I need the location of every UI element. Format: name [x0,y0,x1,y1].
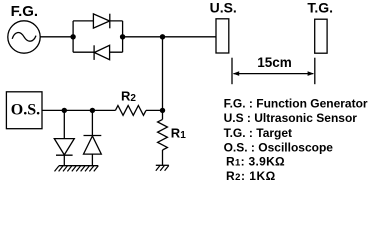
diode D3 (clamp, pointing down) [54,139,74,156]
svg-text:R1: 3.9KΩ: R1: 3.9KΩ [226,155,285,169]
target T.G. box [315,19,327,53]
svg-text:U.S.: U.S. [210,0,237,16]
ultrasonic sensor U.S. box [216,19,229,53]
svg-text:R2: 1KΩ: R2: 1KΩ [226,169,276,183]
ground (R1) [156,165,169,171]
node R2/R1 junction [160,108,165,113]
wire bottom branch [73,51,123,53]
wire node to R1 [162,110,164,119]
node right junction [120,34,125,39]
resistor R1 (vertical zigzag) [158,119,168,150]
extension line below T.G. [314,58,316,84]
node junction to R network [160,34,165,39]
legend text [224,96,368,183]
AC source (function generator) circle [8,21,40,53]
svg-text:F.G. : Function Generator: F.G. : Function Generator [224,96,368,110]
wire right branch vertical [122,21,124,52]
wire left branch vertical [72,21,74,52]
diode D2 (bottom, pointing left) [94,45,110,60]
wire FG to diode pair [40,36,73,38]
svg-text:T.G. : Target: T.G. : Target [224,126,292,140]
wire R1 to ground [162,150,164,165]
svg-text:F.G.: F.G. [11,3,39,20]
node left junction [70,34,75,39]
dimension arrow 15cm [233,71,314,76]
svg-text:U.S : Ultrasonic Sensor: U.S : Ultrasonic Sensor [224,111,358,125]
wire diode pair to sensor [123,36,216,38]
diode D4 (clamp, pointing up) [84,136,102,155]
wire down to diode D4 [91,110,93,135]
wire D4 to ground [91,154,93,166]
wire down to diode D3 [63,110,65,138]
svg-text:T.G.: T.G. [307,0,333,16]
resistor R2 (horizontal zigzag) [115,106,146,116]
node clamp right [90,108,95,113]
wire top branch [73,20,123,22]
sine wave inside source [12,33,36,42]
wire junction down to R2/R1 node [162,37,164,111]
wire O.S. to R2 [42,109,115,111]
svg-text:O.S.: O.S. [11,101,40,118]
svg-text:O.S. : Oscilloscope: O.S. : Oscilloscope [224,141,334,155]
svg-text:R2: R2 [121,88,136,104]
oscilloscope O.S. box [6,92,42,129]
extension line below U.S. [231,58,233,84]
svg-text:R1: R1 [171,125,186,141]
wire R2 to node [146,109,163,111]
ground (clamp diodes) [55,166,99,172]
node clamp left [62,108,67,113]
wire D3 to ground [63,155,65,166]
svg-text:15cm: 15cm [257,55,292,70]
diode D1 (top, pointing right) [93,14,109,29]
